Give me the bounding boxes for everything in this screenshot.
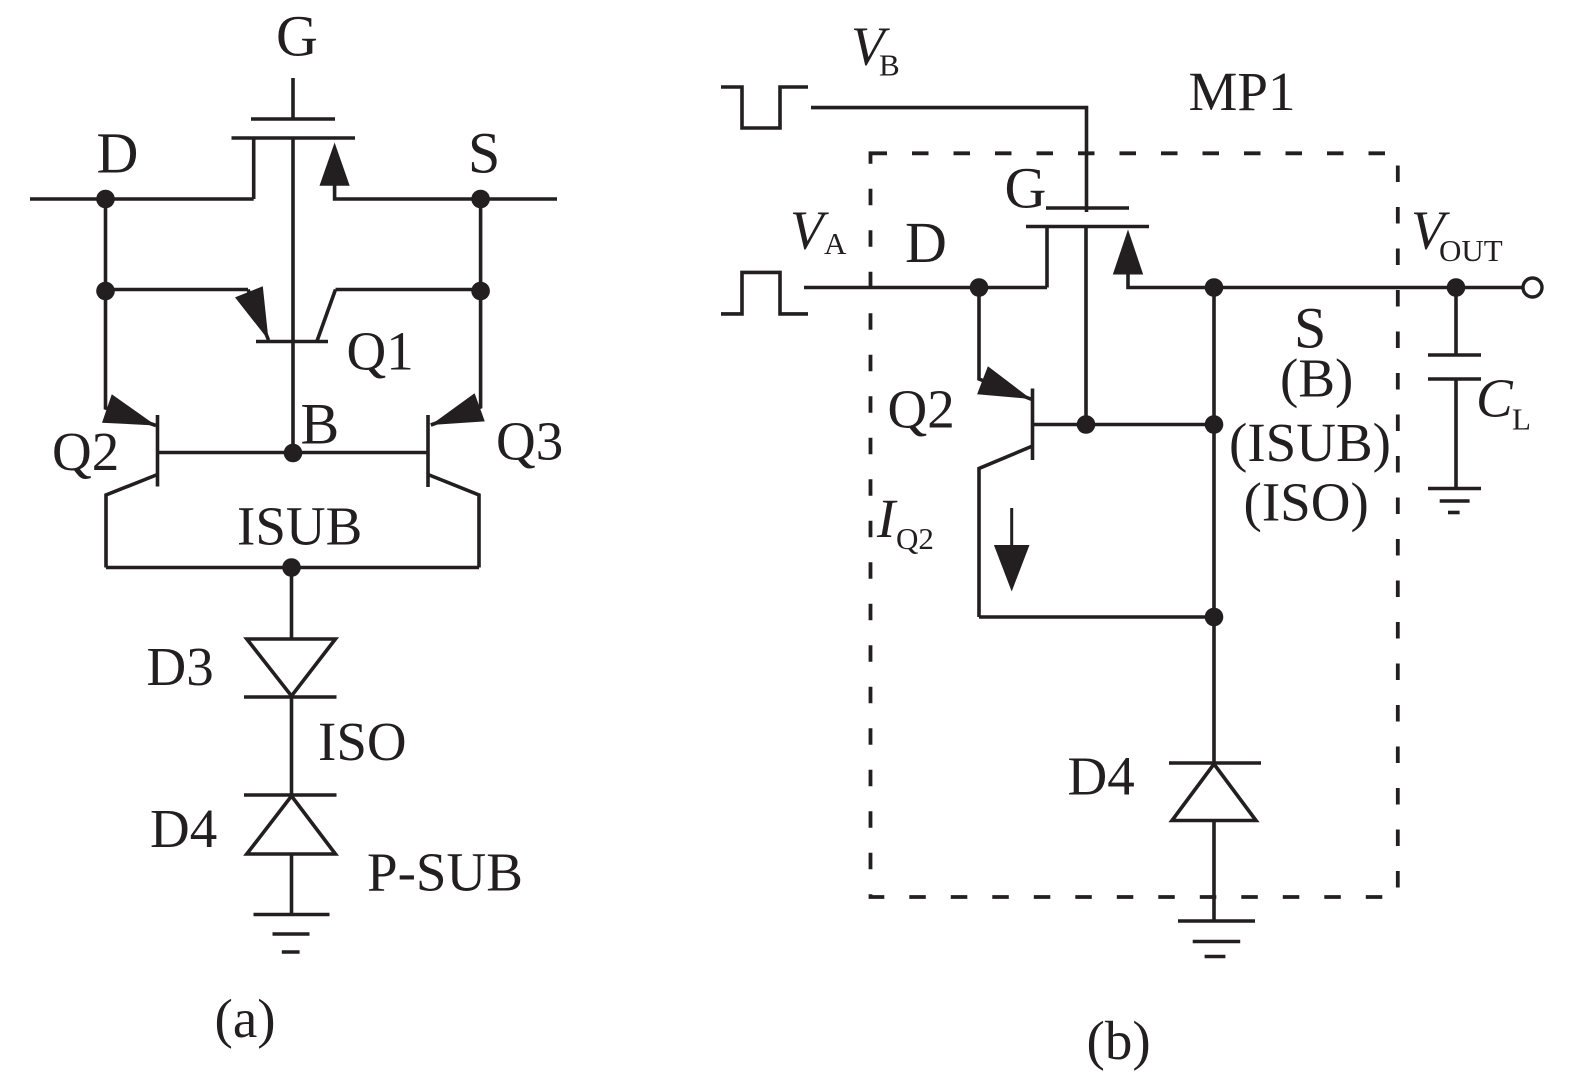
svg-text:S: S	[468, 121, 500, 186]
svg-text:(ISUB): (ISUB)	[1229, 412, 1391, 473]
svg-text:Q1: Q1	[347, 321, 414, 382]
svg-text:D4: D4	[1068, 746, 1135, 807]
svg-text:OUT: OUT	[1439, 233, 1503, 268]
svg-text:Q2: Q2	[888, 379, 955, 440]
svg-text:(a): (a)	[215, 988, 276, 1049]
svg-text:L: L	[1512, 402, 1531, 437]
svg-text:D: D	[97, 121, 139, 186]
svg-text:C: C	[1476, 368, 1514, 429]
svg-text:D: D	[905, 210, 947, 275]
svg-text:D4: D4	[150, 798, 217, 859]
svg-text:(B): (B)	[1280, 348, 1353, 409]
svg-text:ISO: ISO	[318, 711, 407, 772]
svg-text:Q2: Q2	[896, 521, 934, 556]
svg-text:G: G	[1005, 156, 1047, 221]
svg-text:(ISO): (ISO)	[1244, 472, 1369, 533]
svg-text:B: B	[879, 48, 900, 83]
svg-text:D3: D3	[147, 636, 214, 697]
svg-text:B: B	[301, 392, 340, 457]
svg-text:MP1: MP1	[1189, 61, 1296, 122]
svg-text:(b): (b)	[1087, 1010, 1151, 1071]
svg-text:P-SUB: P-SUB	[367, 842, 523, 903]
svg-text:I: I	[876, 488, 898, 549]
svg-text:Q3: Q3	[496, 411, 563, 472]
svg-text:ISUB: ISUB	[237, 496, 362, 557]
svg-text:Q2: Q2	[52, 421, 119, 482]
svg-text:A: A	[824, 226, 847, 261]
svg-text:G: G	[276, 4, 318, 69]
